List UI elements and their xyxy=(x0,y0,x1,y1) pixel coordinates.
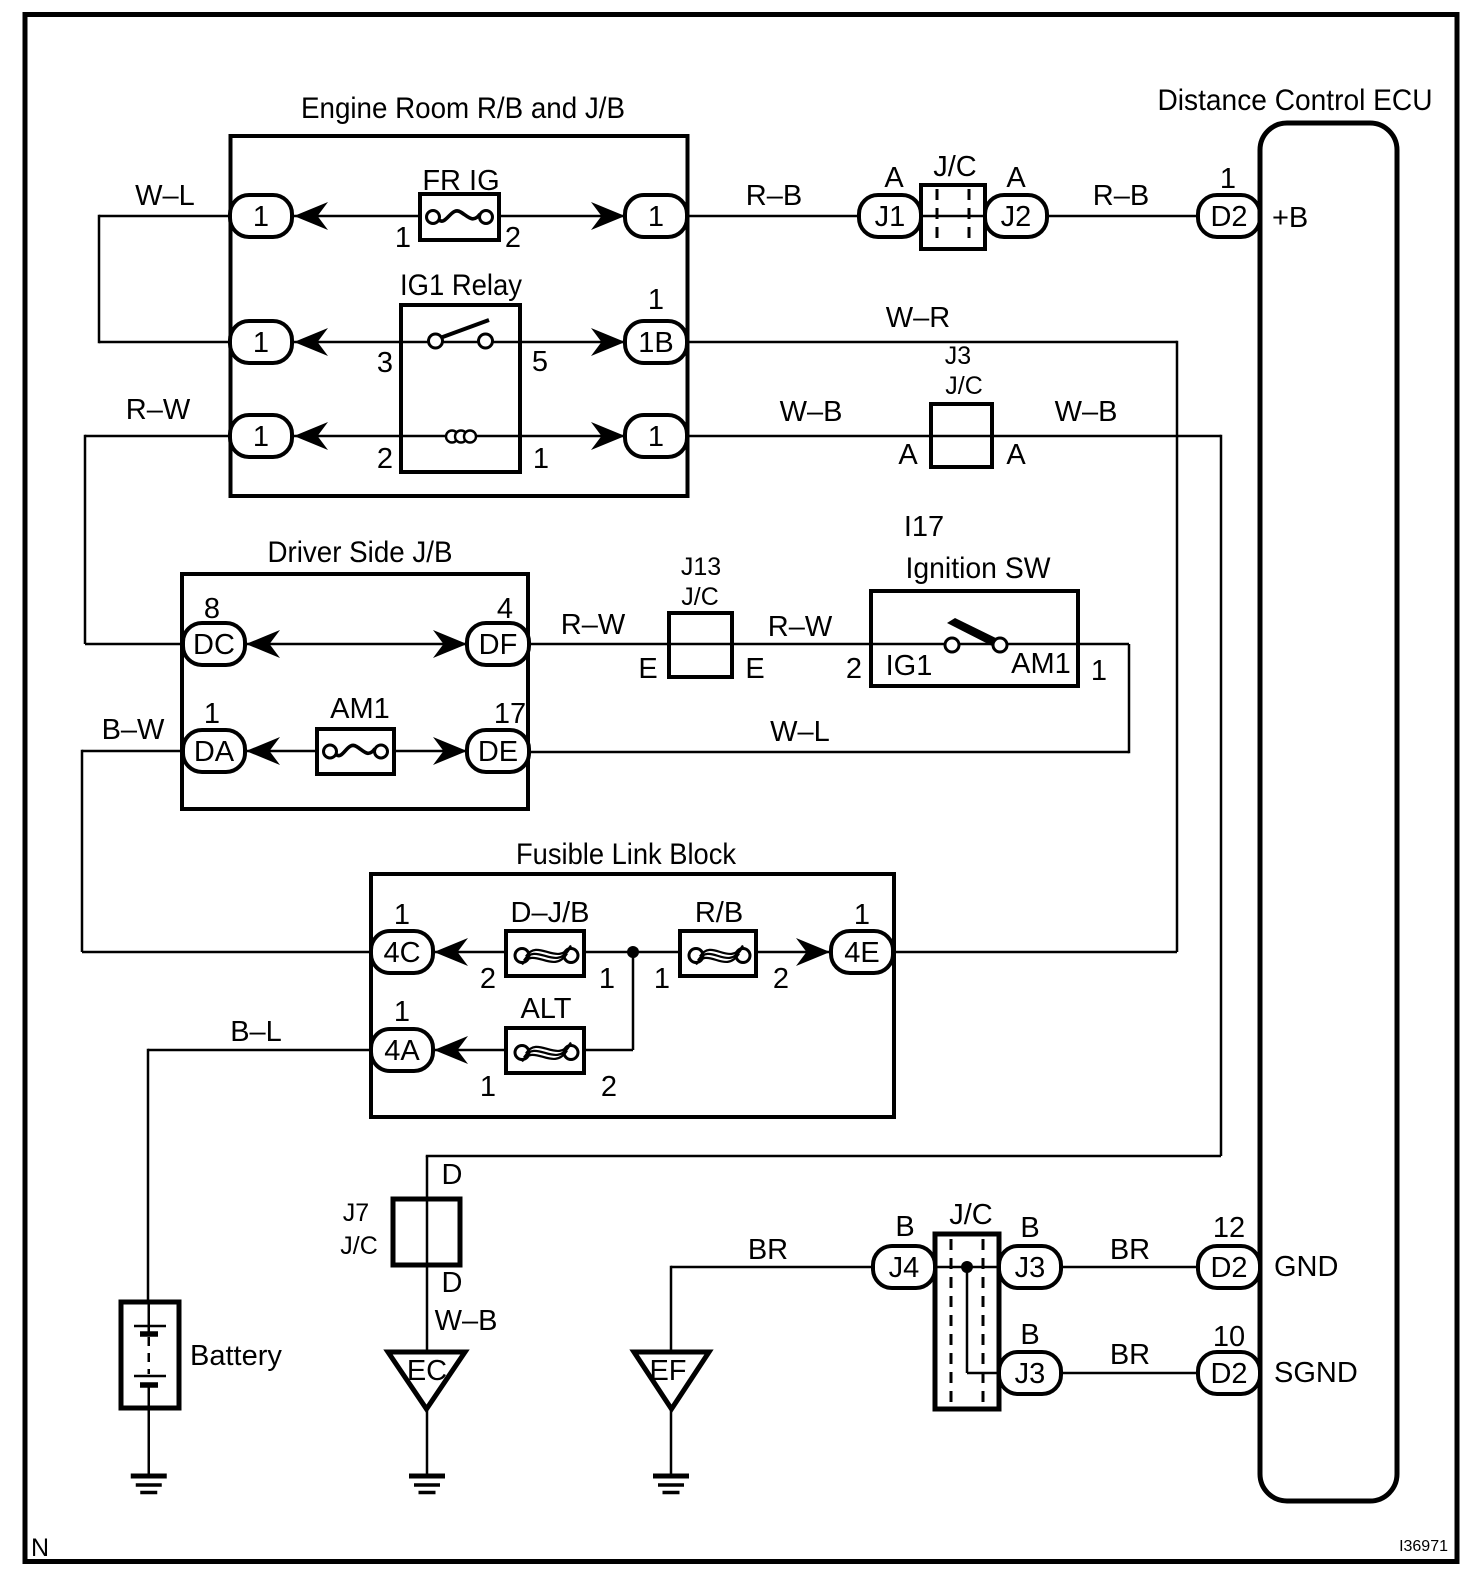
wire EC to ground xyxy=(426,1409,429,1474)
svg-text:J/C: J/C xyxy=(949,1199,993,1231)
junction connector J13 J/C xyxy=(669,613,732,677)
svg-text:5: 5 xyxy=(532,346,548,378)
svg-text:B: B xyxy=(1020,1212,1039,1244)
svg-text:B–L: B–L xyxy=(230,1016,282,1048)
connector D2 pin 12 GND xyxy=(1198,1246,1260,1288)
wire B-L to 4A xyxy=(148,1049,371,1052)
svg-text:J/C: J/C xyxy=(340,1232,378,1260)
svg-text:D2: D2 xyxy=(1210,1252,1247,1284)
svg-text:2: 2 xyxy=(505,222,521,254)
svg-text:1: 1 xyxy=(533,443,549,475)
fuse FR IG xyxy=(420,194,499,240)
arrow out to DF xyxy=(433,630,467,658)
svg-text:8: 8 xyxy=(204,593,220,625)
arrow out to 4E xyxy=(796,938,830,966)
svg-text:J3: J3 xyxy=(1015,1358,1046,1390)
connector J3 lower xyxy=(999,1352,1061,1394)
svg-text:SGND: SGND xyxy=(1274,1357,1358,1389)
wire W-R horizontal to 4E xyxy=(893,951,1177,954)
svg-text:D2: D2 xyxy=(1210,1358,1247,1390)
svg-text:D: D xyxy=(442,1159,463,1191)
svg-text:4: 4 xyxy=(497,593,513,625)
svg-text:B: B xyxy=(1020,1319,1039,1351)
ground battery xyxy=(131,1476,167,1493)
arrow into connector row3 xyxy=(294,422,328,450)
junction connector J/C (J4-J3) xyxy=(935,1234,999,1409)
svg-text:DC: DC xyxy=(193,629,235,661)
svg-text:Fusible Link Block: Fusible Link Block xyxy=(516,838,737,871)
arrow out connector 1B xyxy=(591,328,625,356)
wire R-W into DC xyxy=(85,643,183,646)
svg-text:A: A xyxy=(898,439,918,471)
svg-text:FR IG: FR IG xyxy=(422,165,499,197)
wire W-B through J7 to EC xyxy=(426,1156,429,1352)
connector D2 pin 10 SGND xyxy=(1198,1352,1260,1394)
svg-text:1: 1 xyxy=(204,698,220,730)
connector DE xyxy=(467,730,529,772)
svg-text:R–W: R–W xyxy=(561,609,626,641)
svg-text:I36971: I36971 xyxy=(1399,1538,1448,1555)
connector 4A xyxy=(371,1029,433,1071)
connector 4E xyxy=(831,931,893,973)
wire D-J/B to R/B link xyxy=(584,951,680,954)
svg-text:GND: GND xyxy=(1274,1251,1338,1283)
wire W-L vertical xyxy=(98,215,101,344)
connector 1 engine room row1 left xyxy=(230,195,292,237)
svg-text:Ignition SW: Ignition SW xyxy=(906,552,1052,585)
wire ALT link right side xyxy=(584,1049,633,1052)
junction dot xyxy=(627,946,639,958)
wire R/B link to 4E xyxy=(756,951,830,954)
ECU Distance Control ECU xyxy=(1158,84,1433,1501)
svg-text:W–L: W–L xyxy=(135,180,195,212)
svg-text:IG1: IG1 xyxy=(886,650,933,682)
svg-text:EC: EC xyxy=(407,1355,447,1387)
svg-text:12: 12 xyxy=(1213,1212,1245,1244)
fusible link ALT xyxy=(506,1028,584,1073)
connector 1B xyxy=(625,321,687,363)
connector J1 xyxy=(859,195,921,237)
battery xyxy=(121,1302,179,1408)
arrow into 4A xyxy=(434,1036,468,1064)
svg-text:17: 17 xyxy=(494,698,526,730)
connector DF xyxy=(467,623,529,665)
arrow into connector row2 xyxy=(294,328,328,356)
wire down to EF xyxy=(670,1266,673,1352)
svg-text:10: 10 xyxy=(1213,1321,1245,1353)
svg-text:EF: EF xyxy=(649,1355,686,1387)
ground point EF xyxy=(634,1352,709,1409)
svg-text:2: 2 xyxy=(601,1071,617,1103)
svg-text:B–W: B–W xyxy=(102,714,165,746)
wire R-W vertical xyxy=(84,435,87,644)
ground point EC xyxy=(388,1352,465,1409)
svg-text:1: 1 xyxy=(253,421,269,453)
svg-text:J2: J2 xyxy=(1001,201,1032,233)
svg-text:+B: +B xyxy=(1272,202,1308,234)
svg-text:3: 3 xyxy=(377,347,393,379)
wire fuse FR IG pin2 side xyxy=(499,215,625,218)
svg-text:R–B: R–B xyxy=(1093,180,1149,212)
svg-text:E: E xyxy=(745,653,764,685)
fusible link R/B xyxy=(680,931,756,976)
wire W-R vertical down to 4E xyxy=(1176,341,1179,952)
svg-text:2: 2 xyxy=(846,653,862,685)
connector 1 engine room row3 right xyxy=(625,415,687,457)
wire through IG1 relay contacts xyxy=(292,341,625,344)
block Engine Room R/B and J/B xyxy=(231,92,688,496)
connector DA xyxy=(183,730,245,772)
junction connector J/C (J1-J2) xyxy=(921,185,985,249)
svg-text:4C: 4C xyxy=(383,937,420,969)
svg-text:1: 1 xyxy=(395,222,411,254)
connector J4 xyxy=(873,1246,935,1288)
wire W-L DE to ignition switch AM1 xyxy=(529,751,1129,754)
svg-text:1B: 1B xyxy=(638,327,673,359)
svg-text:4A: 4A xyxy=(384,1035,420,1067)
arrow out connector row3 xyxy=(591,422,625,450)
connector J3 upper xyxy=(999,1246,1061,1288)
wire BR J3 to D2 GND xyxy=(1061,1266,1198,1269)
svg-text:4E: 4E xyxy=(844,937,879,969)
svg-text:2: 2 xyxy=(377,443,393,475)
switch I17 Ignition SW xyxy=(871,591,1078,686)
svg-text:DA: DA xyxy=(194,736,235,768)
wire EF to ground xyxy=(670,1409,673,1474)
arrow into DA xyxy=(246,737,280,765)
svg-text:J13: J13 xyxy=(681,553,721,581)
connector DC xyxy=(183,623,245,665)
fusible link D-J/B xyxy=(506,931,584,976)
svg-text:D–J/B: D–J/B xyxy=(511,897,590,929)
svg-text:J/C: J/C xyxy=(681,583,719,611)
svg-text:Battery: Battery xyxy=(190,1340,282,1372)
svg-text:BR: BR xyxy=(1110,1234,1150,1266)
wire B-W vertical xyxy=(81,750,84,952)
svg-text:AM1: AM1 xyxy=(330,693,390,725)
svg-text:1: 1 xyxy=(394,996,410,1028)
connector 1 engine room row3 left xyxy=(230,415,292,457)
connector J2 xyxy=(985,195,1047,237)
svg-text:A: A xyxy=(884,162,904,194)
wire fuse FR IG pin1 side xyxy=(292,215,420,218)
svg-text:2: 2 xyxy=(480,963,496,995)
wire R-W from relay coil connector xyxy=(85,435,230,438)
svg-text:W–B: W–B xyxy=(1055,396,1118,428)
svg-text:DF: DF xyxy=(479,629,518,661)
svg-text:D2: D2 xyxy=(1210,201,1247,233)
svg-text:1: 1 xyxy=(654,963,670,995)
svg-text:Distance Control ECU: Distance Control ECU xyxy=(1158,84,1433,117)
wire R-B J2 to D2 xyxy=(1047,215,1198,218)
svg-text:I17: I17 xyxy=(904,511,944,543)
connector 4C xyxy=(371,931,433,973)
svg-text:BR: BR xyxy=(748,1234,788,1266)
arrow out to DE xyxy=(433,737,467,765)
svg-text:J3: J3 xyxy=(945,342,971,370)
svg-text:A: A xyxy=(1006,439,1026,471)
svg-text:1: 1 xyxy=(648,421,664,453)
svg-text:W–L: W–L xyxy=(770,716,830,748)
svg-text:J4: J4 xyxy=(889,1252,920,1284)
svg-text:BR: BR xyxy=(1110,1339,1150,1371)
wire BR J3 to D2 SGND xyxy=(1061,1372,1198,1375)
svg-text:R–B: R–B xyxy=(746,180,802,212)
svg-text:1: 1 xyxy=(599,963,615,995)
svg-text:1: 1 xyxy=(480,1071,496,1103)
svg-text:W–B: W–B xyxy=(780,396,843,428)
svg-text:A: A xyxy=(1006,162,1026,194)
wire 4C to D-J/B link xyxy=(433,951,506,954)
wire B-L vertical to battery xyxy=(147,1049,150,1302)
svg-text:IG1 Relay: IG1 Relay xyxy=(400,269,522,302)
svg-text:J7: J7 xyxy=(343,1199,369,1227)
arrow into 4C xyxy=(434,938,468,966)
svg-text:Engine Room R/B and J/B: Engine Room R/B and J/B xyxy=(301,92,625,125)
connector 1 engine room row1 right xyxy=(625,195,687,237)
svg-text:1: 1 xyxy=(1091,655,1107,687)
svg-text:1: 1 xyxy=(648,284,664,316)
wire W-B through J3 junction xyxy=(687,435,1221,438)
arrow into connector 1 row1 xyxy=(294,202,328,230)
svg-text:1: 1 xyxy=(854,899,870,931)
wire R-B to J1 xyxy=(687,215,859,218)
svg-text:J/C: J/C xyxy=(945,372,983,400)
fuse AM1 xyxy=(317,729,394,774)
wire DC to DF inside J/B xyxy=(245,643,467,646)
block Driver Side J/B xyxy=(182,536,528,809)
wire DA to AM1 fuse xyxy=(245,750,317,753)
svg-text:1: 1 xyxy=(253,327,269,359)
svg-text:AM1: AM1 xyxy=(1011,648,1071,680)
wire B-W into DA xyxy=(82,750,183,753)
svg-text:E: E xyxy=(638,653,657,685)
wire B-W to 4C xyxy=(82,951,371,954)
arrow into DC xyxy=(246,630,280,658)
wire W-B horizontal to J7 xyxy=(426,1155,1221,1158)
wire 4A to ALT link xyxy=(433,1049,506,1052)
svg-text:Driver Side J/B: Driver Side J/B xyxy=(268,536,453,569)
wire W-L to IG1 relay pin 3 connector xyxy=(99,341,230,344)
svg-text:1: 1 xyxy=(648,201,664,233)
wire W-B vertical down xyxy=(1220,435,1223,1156)
svg-text:R–W: R–W xyxy=(126,394,191,426)
svg-text:2: 2 xyxy=(773,963,789,995)
svg-text:DE: DE xyxy=(478,736,518,768)
svg-text:W–R: W–R xyxy=(886,302,950,334)
wire from ignition AM1 pin 1 xyxy=(1078,643,1129,646)
svg-text:R–W: R–W xyxy=(768,611,833,643)
wire through IG1 relay coil row xyxy=(292,435,625,438)
svg-text:J/C: J/C xyxy=(933,151,977,183)
junction connector J3 J/C xyxy=(931,404,992,467)
svg-text:N: N xyxy=(31,1534,49,1562)
wire W-L horizontal to Engine Room pin 1 xyxy=(99,215,230,218)
svg-text:B: B xyxy=(895,1211,914,1243)
connector D2 pin 1 +B xyxy=(1198,195,1260,237)
connector 1 engine room row2 left xyxy=(230,321,292,363)
wire battery to ground xyxy=(148,1408,151,1474)
wire junction down to ALT link xyxy=(632,952,635,1050)
svg-text:R/B: R/B xyxy=(695,897,743,929)
ground EC xyxy=(409,1476,445,1493)
svg-text:1: 1 xyxy=(394,899,410,931)
svg-text:1: 1 xyxy=(253,201,269,233)
wire BR EF to J4 xyxy=(671,1266,873,1269)
arrow out connector 1 row1 xyxy=(591,202,625,230)
svg-text:J3: J3 xyxy=(1015,1252,1046,1284)
wire W-R from 1B xyxy=(687,341,1177,344)
junction connector J7 J/C xyxy=(393,1199,460,1265)
block Fusible Link Block xyxy=(371,838,894,1117)
relay IG1 xyxy=(401,305,520,472)
svg-text:W–B: W–B xyxy=(435,1305,498,1337)
svg-text:ALT: ALT xyxy=(520,993,571,1025)
wire AM1 fuse to DE xyxy=(394,750,467,753)
ground EF xyxy=(653,1476,689,1493)
svg-text:J1: J1 xyxy=(875,201,906,233)
svg-text:D: D xyxy=(442,1267,463,1299)
wire W-L vertical xyxy=(1128,644,1131,753)
svg-text:1: 1 xyxy=(1220,163,1236,195)
wire R-W DF through J13 to ignition switch xyxy=(528,643,1078,646)
